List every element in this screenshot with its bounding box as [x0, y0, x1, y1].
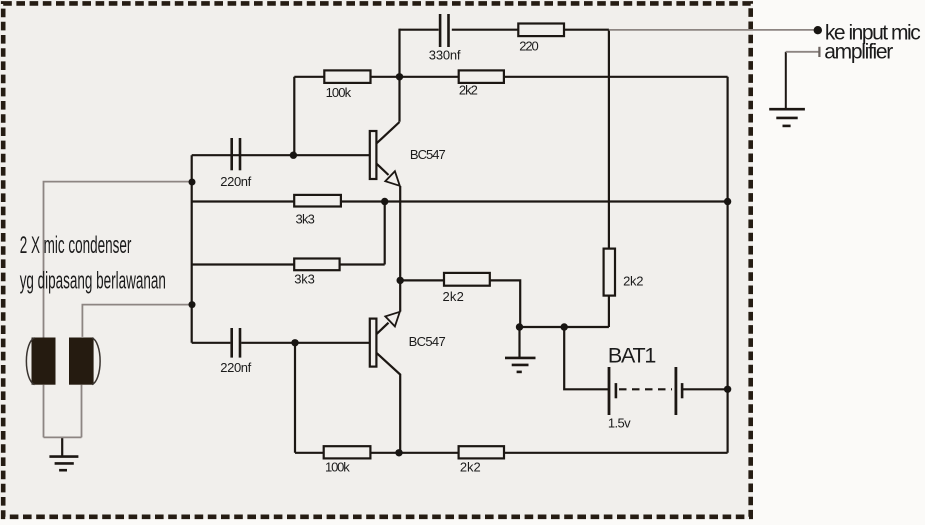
wire ground line [520, 326, 609, 328]
svg-text:220: 220 [519, 39, 539, 54]
wire bottom rail mid [370, 452, 458, 454]
node dot battery output [724, 386, 731, 393]
svg-text:100k: 100k [326, 85, 352, 100]
node dot emitter tap [397, 277, 404, 284]
svg-text:2k2: 2k2 [443, 289, 464, 304]
wire R7 bottom lead [608, 296, 610, 327]
wire bottom rail right [504, 452, 728, 454]
wire bottom rail left [295, 452, 324, 454]
svg-text:2 X mic condenser: 2 X mic condenser [20, 232, 132, 259]
wire top rail mid segment [452, 29, 519, 31]
resistor R7 2k2 vertical [604, 249, 615, 296]
capacitor C1 330nf [440, 14, 448, 47]
node dot mic2 tap [189, 301, 196, 308]
node dot battery junction [561, 323, 568, 330]
wire top rail right segment [564, 29, 609, 31]
wire mic2 top gray [82, 305, 192, 337]
wire bias line left [294, 76, 324, 78]
svg-text:3k3: 3k3 [296, 211, 315, 226]
wire bias line mid [371, 76, 459, 78]
wire left mid vertical [293, 77, 295, 155]
resistor R9 2k2 [459, 446, 504, 458]
wire 2k2 emitter tap left [400, 279, 444, 281]
dashed border frame [3, 3, 751, 516]
svg-text:yg dipasang berlawanan: yg dipasang berlawanan [20, 268, 166, 295]
wire Q1 collector vertical [398, 29, 400, 122]
resistor R2 2k2 [459, 70, 504, 83]
wire Q1 base line [192, 154, 370, 156]
svg-text:220nf: 220nf [220, 360, 251, 375]
microphone MIC2 [69, 338, 100, 385]
wire top rail left segment [400, 29, 439, 31]
svg-text:220nf: 220nf [220, 174, 251, 189]
wire 3k3 line left [192, 263, 295, 265]
transistor Q1 BC547 [370, 122, 400, 186]
resistor R6 2k2 [444, 273, 490, 286]
wire bias line right [504, 76, 728, 78]
resistor R8 100k [324, 446, 371, 458]
wire shared emitter vertical [399, 186, 401, 312]
svg-text:330nf: 330nf [429, 47, 461, 62]
wire 3k3 drop vertical [384, 202, 386, 265]
node dot right rail emitter line [724, 198, 731, 205]
wire vertical from top rail to R7 [608, 30, 610, 249]
terminal tick amplifier [818, 47, 820, 57]
svg-text:2k2: 2k2 [623, 274, 643, 289]
wire output gray [609, 29, 815, 31]
node dot bottom junction [395, 449, 402, 456]
node dot 3k3 tap [381, 198, 388, 205]
wire battery output [682, 388, 727, 390]
svg-text:BC547: BC547 [409, 334, 446, 349]
node dot bias junction [396, 73, 403, 80]
node dot output terminal [814, 26, 822, 34]
wire 3k3 line right [340, 263, 385, 265]
wire left rail vertical [191, 155, 193, 343]
node dot base2 junction [291, 339, 298, 346]
wire emitter line right [341, 200, 728, 202]
resistor R4 3k3 [294, 195, 341, 207]
wire emitter line left [192, 200, 295, 202]
wire 2k2 emitter tap right [490, 280, 520, 327]
node dot mic1 tap [189, 179, 196, 186]
svg-text:amplifier: amplifier [824, 41, 893, 64]
wire Q2 base line left [192, 342, 231, 344]
svg-text:BC547: BC547 [410, 147, 446, 162]
transistor Q2 BC547 [370, 312, 400, 453]
wire mic link gray [44, 436, 82, 438]
microphone MIC1 [26, 338, 55, 385]
svg-text:100k: 100k [325, 459, 350, 474]
svg-text:BAT1: BAT1 [608, 344, 656, 368]
capacitor C2 220nf [232, 138, 240, 170]
wire mic1 bottom gray [43, 385, 45, 438]
resistor R5 3k3 [294, 259, 339, 271]
svg-text:1.5v: 1.5v [608, 415, 631, 430]
resistor R3 220 [518, 24, 564, 37]
wire mic2 bottom gray [81, 385, 83, 438]
wire Q2 base line right [241, 342, 370, 344]
node dot ground junction [516, 323, 523, 330]
wire amplifier gray [786, 51, 819, 53]
wire mic1 top gray [44, 182, 193, 338]
wire right rail vertical [726, 77, 728, 453]
wire battery feed [564, 327, 609, 389]
wire 100k drop vertical [294, 343, 296, 453]
node dot base1 junction [290, 152, 297, 159]
ground mid [505, 327, 536, 372]
resistor R1 100k [324, 70, 370, 83]
svg-text:2k2: 2k2 [459, 83, 478, 98]
svg-text:3k3: 3k3 [294, 271, 315, 286]
ground mic [49, 437, 78, 470]
svg-text:2k2: 2k2 [460, 459, 481, 474]
ground amplifier [769, 52, 805, 126]
battery BAT1 [609, 367, 682, 415]
capacitor C3 220nf [232, 328, 240, 358]
